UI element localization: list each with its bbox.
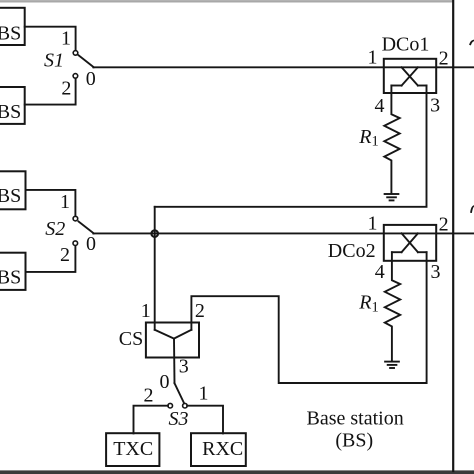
svg-text:2: 2 [195,300,205,322]
svg-text:DCo1: DCo1 [382,34,430,56]
svg-text:BS: BS [0,22,21,44]
wire S3 terminal 1 to RXC [187,406,223,434]
svg-text:RXC: RXC [202,438,243,460]
wire BS2 to S1 terminal 2 [25,79,76,105]
svg-text:3: 3 [179,355,189,377]
svg-text:BS: BS [0,101,21,123]
svg-text:2: 2 [60,244,70,266]
svg-text:BS: BS [0,267,21,289]
svg-text:R: R [358,126,371,148]
ground (upper) [385,194,399,200]
wire S2 pole to DCo2 port 1 and antenna port 2 [93,232,474,234]
switch S1 arm [79,55,94,67]
block BS (feed 3) [0,171,26,209]
ground (lower) [385,362,399,368]
block RXC [191,433,246,466]
svg-text:S2: S2 [45,218,65,240]
svg-text:S1: S1 [44,49,64,71]
svg-text:3: 3 [430,95,440,117]
resistor R1 (upper) [384,86,399,194]
wire DCo1 port 3 down and left to junction [155,86,427,207]
label R1 (lower) [358,292,378,316]
block TXC [106,433,159,466]
svg-text:3: 3 [431,261,441,283]
label R1 (upper) [358,126,378,150]
wire S1 pole to DCo1 port 1 and antenna port 2 [93,66,474,68]
wire BS1 to S1 terminal 1 [25,27,76,51]
directional coupler DCo2 [384,225,436,261]
svg-text:2: 2 [144,385,154,407]
wire CS port 2 to DCo2 port 3 [191,252,426,383]
antenna feed mark (upper) [469,40,474,46]
svg-text:1: 1 [368,47,378,69]
S2 terminal 1 contact [73,216,78,221]
svg-text:1: 1 [61,28,71,50]
svg-text:0: 0 [86,68,96,90]
svg-text:2: 2 [439,47,449,69]
svg-text:0: 0 [160,371,170,393]
block BS (feed 2) [0,87,25,124]
svg-text:1: 1 [60,191,70,213]
block BS (feed 1) [0,8,25,45]
svg-text:1: 1 [368,213,378,235]
switch S2 arm [79,222,94,234]
wire BS3 to S2 terminal 1 [26,190,76,216]
junction node (S2 pole / DCo1 port 3 / CS port 1) [151,230,158,237]
wire S3 terminal 2 to TXC [134,406,169,434]
svg-text:2: 2 [439,214,449,236]
wire BS4 to S2 terminal 2 [26,246,76,272]
antenna feed mark (lower) [470,205,474,213]
svg-text:R: R [358,292,371,314]
base station enclosure right edge [452,0,454,471]
block BS (feed 4) [0,253,26,290]
svg-text:Base station: Base station [306,408,403,430]
switch S3 arm [175,383,185,403]
svg-text:4: 4 [375,95,385,117]
svg-text:CS: CS [119,328,143,350]
svg-text:DCo2: DCo2 [328,240,376,262]
wire junction vertical to CS port 1 [154,207,156,330]
svg-text:1: 1 [372,300,379,316]
combiner CS [146,323,199,358]
S3 terminal 1 contact [183,403,188,408]
svg-text:1: 1 [372,134,379,150]
svg-text:0: 0 [86,233,96,255]
label Base station (BS) [306,408,403,452]
S1 terminal 2 contact [73,74,78,79]
S2 terminal 2 contact [73,241,78,246]
svg-text:(BS): (BS) [335,429,373,451]
svg-text:4: 4 [375,261,385,283]
svg-text:2: 2 [61,78,71,100]
svg-text:1: 1 [141,300,151,322]
svg-text:TXC: TXC [113,438,153,460]
directional coupler DCo1 [384,59,436,93]
wire CS port 3 to S3 pole [173,339,176,384]
S3 terminal 2 contact [168,403,173,408]
resistor R1 (lower) [385,252,400,361]
svg-text:1: 1 [199,383,209,405]
S1 terminal 1 contact [73,51,78,56]
svg-text:S3: S3 [169,408,189,430]
svg-text:BS: BS [0,185,21,207]
